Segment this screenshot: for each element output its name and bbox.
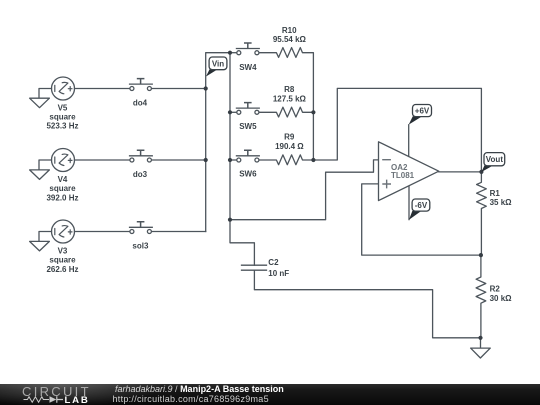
svg-text:square: square [49,256,76,265]
svg-text:V4: V4 [58,175,68,184]
svg-text:Vout: Vout [486,155,504,164]
svg-text:R10: R10 [282,26,297,35]
svg-text:TL081: TL081 [391,171,415,180]
svg-text:R8: R8 [284,85,295,94]
svg-text:sol3: sol3 [132,241,149,250]
svg-text:Vin: Vin [212,59,224,68]
svg-text:35 kΩ: 35 kΩ [490,198,513,207]
svg-text:-6V: -6V [415,201,428,210]
svg-text:C2: C2 [268,258,279,267]
svg-text:R1: R1 [490,189,501,198]
svg-text:SW4: SW4 [239,63,257,72]
svg-text:10 nF: 10 nF [268,269,289,278]
svg-text:262.6 Hz: 262.6 Hz [46,265,78,274]
svg-text:R9: R9 [284,133,295,142]
svg-text:127.5 kΩ: 127.5 kΩ [273,95,307,104]
svg-text:190.4 Ω: 190.4 Ω [275,142,304,151]
svg-text:SW5: SW5 [239,122,257,131]
svg-text:30 kΩ: 30 kΩ [490,294,513,303]
svg-text:V5: V5 [58,103,68,112]
svg-text:V3: V3 [58,247,68,256]
svg-text:95.54 kΩ: 95.54 kΩ [273,35,307,44]
svg-text:523.3 Hz: 523.3 Hz [46,122,78,131]
svg-text:square: square [49,112,76,121]
svg-text:do3: do3 [133,170,148,179]
svg-text:392.0 Hz: 392.0 Hz [46,193,78,202]
svg-text:+6V: +6V [415,107,430,116]
svg-text:do4: do4 [133,98,148,107]
svg-text:R2: R2 [490,284,501,293]
svg-text:SW6: SW6 [239,169,257,178]
svg-text:square: square [49,184,76,193]
